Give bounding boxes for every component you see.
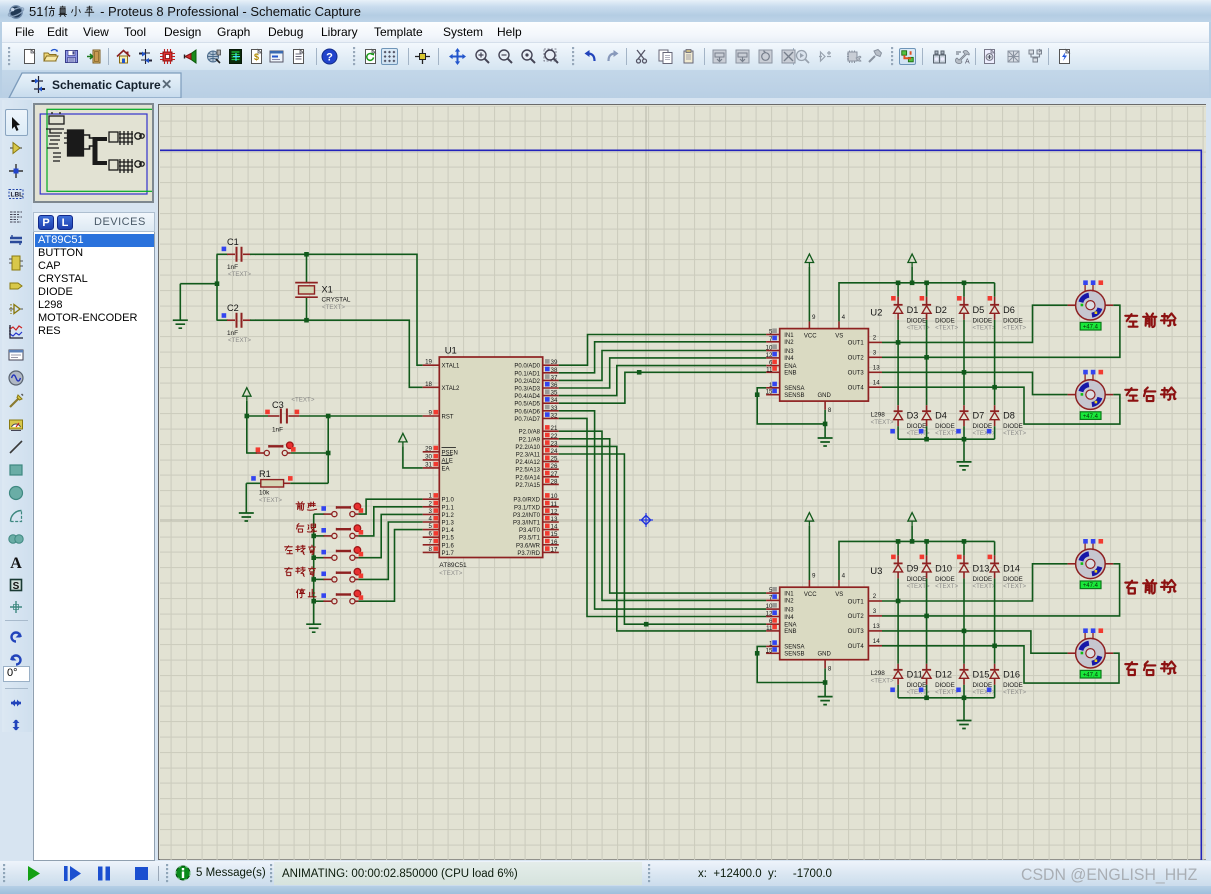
svg-text:LBL: LBL bbox=[11, 192, 24, 199]
svg-text:P3.0/RXD: P3.0/RXD bbox=[513, 498, 540, 504]
wire OUT3-U2 to M2 left bbox=[882, 372, 1068, 394]
svg-text:<TEXT>: <TEXT> bbox=[1003, 689, 1026, 696]
wire OUT1-U3 to M3 left bbox=[882, 564, 1068, 601]
wire SENSA/SENSB tie (U2) bbox=[755, 388, 827, 426]
pin 11 P3.1/TXD (U1) bbox=[514, 501, 559, 512]
svg-text:OUT4: OUT4 bbox=[848, 386, 865, 392]
svg-text:7: 7 bbox=[429, 538, 433, 545]
node button-R1 junction bbox=[326, 451, 331, 456]
svg-text:P0.7/AD7: P0.7/AD7 bbox=[514, 417, 540, 423]
node OUT junction D9 bbox=[896, 599, 901, 604]
button K1 qianjin bbox=[296, 502, 363, 517]
svg-text:P2.0/A8: P2.0/A8 bbox=[519, 430, 541, 436]
node VS rail junction (U2) x925 bbox=[924, 281, 929, 286]
diode D1 (top) and D3 (bottom) column bbox=[890, 283, 930, 439]
pin 25 P2.4/A12 (U1) bbox=[515, 456, 558, 467]
svg-text:P3.1/TXD: P3.1/TXD bbox=[514, 505, 541, 511]
svg-text:DIODE: DIODE bbox=[1003, 576, 1023, 583]
wire net P0.0-IN1 (U1 to U2) bbox=[559, 335, 766, 366]
svg-text:S: S bbox=[13, 581, 20, 592]
svg-text:P2.7/A15: P2.7/A15 bbox=[515, 483, 540, 489]
svg-text:IN1: IN1 bbox=[784, 333, 794, 339]
svg-text:<TEXT>: <TEXT> bbox=[935, 689, 958, 696]
label zuohoulun bbox=[1125, 387, 1175, 401]
svg-text:<TEXT>: <TEXT> bbox=[259, 497, 282, 504]
svg-text:SENSA: SENSA bbox=[784, 645, 804, 651]
svg-text:D13: D13 bbox=[973, 563, 990, 573]
svg-text:16: 16 bbox=[551, 539, 558, 546]
svg-text:14: 14 bbox=[873, 379, 880, 386]
node RST-power junction bbox=[245, 414, 250, 419]
pin 37 P0.2/AD2 (U1) bbox=[514, 374, 558, 385]
svg-text:A: A bbox=[965, 59, 970, 66]
pin 6 P1.5 (U1) bbox=[423, 531, 455, 542]
pin 36 P0.3/AD3 (U1) bbox=[514, 382, 558, 393]
crystal X1 bbox=[295, 254, 351, 320]
svg-text:15: 15 bbox=[766, 389, 773, 396]
pin 9 RST (U1) bbox=[423, 410, 454, 421]
svg-text:<TEXT>: <TEXT> bbox=[439, 570, 462, 577]
wire ground branch to C1/C2 bbox=[180, 284, 217, 321]
svg-text:IN4: IN4 bbox=[784, 615, 794, 621]
svg-text:D15: D15 bbox=[973, 669, 990, 679]
svg-text:+47.4: +47.4 bbox=[1083, 673, 1099, 679]
svg-text:P0.1/AD1: P0.1/AD1 bbox=[514, 371, 540, 377]
pin 14 P3.4/T0 (U1) bbox=[519, 524, 559, 535]
capacitor C2 bbox=[217, 303, 256, 344]
wire button 3 to P1.2 bbox=[358, 514, 422, 557]
pin 7 IN2 (U3) bbox=[766, 594, 794, 604]
svg-text:3: 3 bbox=[429, 508, 433, 515]
svg-text:14: 14 bbox=[551, 524, 558, 531]
svg-text:OUT1: OUT1 bbox=[848, 599, 865, 605]
svg-text:4: 4 bbox=[842, 573, 846, 580]
node OUT junction D10 bbox=[924, 614, 929, 619]
svg-text:D9: D9 bbox=[907, 563, 919, 573]
svg-text:10k: 10k bbox=[259, 490, 270, 497]
svg-text:+47.4: +47.4 bbox=[1083, 583, 1099, 589]
svg-text:DIODE: DIODE bbox=[1003, 317, 1023, 324]
svg-text:SENSB: SENSB bbox=[784, 652, 804, 658]
svg-text:39: 39 bbox=[551, 359, 558, 366]
svg-text:DIODE: DIODE bbox=[1003, 423, 1023, 430]
pin 7 IN2 (U2) bbox=[766, 336, 794, 346]
svg-text:SENSB: SENSB bbox=[784, 393, 804, 399]
svg-text:?: ? bbox=[326, 52, 333, 64]
node C1-gnd junction bbox=[215, 281, 220, 286]
pin 32 P0.7/AD7 (U1) bbox=[514, 412, 558, 423]
svg-text:<TEXT>: <TEXT> bbox=[228, 337, 251, 344]
motor M3 youqianlun (MOTOR-ENCODER) bbox=[1068, 539, 1114, 589]
power terminal VCC (RST section) bbox=[243, 388, 251, 416]
pin 12 IN4 (U2) bbox=[766, 352, 795, 362]
pin 23 P2.2/A10 (U1) bbox=[515, 440, 558, 451]
svg-text:+47.4: +47.4 bbox=[1083, 325, 1099, 331]
pin 3 P1.2 (U1) bbox=[423, 508, 455, 519]
svg-text:6: 6 bbox=[429, 531, 433, 538]
pin 12 IN4 (U3) bbox=[766, 610, 795, 620]
svg-text:<TEXT>: <TEXT> bbox=[322, 304, 345, 311]
wire SENSA/SENSB tie (U3) bbox=[755, 646, 827, 684]
svg-text:L298: L298 bbox=[871, 670, 886, 677]
svg-text:EA: EA bbox=[442, 466, 450, 472]
svg-text:14: 14 bbox=[873, 638, 880, 645]
pin 5 IN1 (U3) bbox=[766, 587, 794, 597]
wire net P0.4-ENA (U1 to U2) bbox=[559, 366, 766, 396]
svg-text:IN3: IN3 bbox=[784, 607, 794, 613]
diode D5 (top) and D7 (bottom) column bbox=[956, 283, 996, 439]
wire net P0.5-ENB (U1 to U2) bbox=[559, 372, 766, 403]
wire VS rail (U3) bbox=[839, 541, 995, 580]
node VS rail junction (U3) x925 bbox=[924, 539, 929, 544]
svg-text:P3.7/RD: P3.7/RD bbox=[517, 551, 540, 557]
svg-text:4: 4 bbox=[842, 314, 846, 321]
ground (diode rail U2) bbox=[957, 462, 972, 470]
pin 8 GND (U2) bbox=[818, 393, 832, 414]
svg-text:<TEXT>: <TEXT> bbox=[871, 678, 894, 685]
wire net P2.3-ENAb (U1 to U3) bbox=[559, 454, 766, 624]
svg-text:2: 2 bbox=[873, 593, 877, 600]
svg-text:10: 10 bbox=[766, 345, 773, 352]
svg-text:+47.4: +47.4 bbox=[1083, 414, 1099, 420]
pin 8 P1.7 (U1) bbox=[423, 546, 455, 557]
pin 34 P0.5/AD5 (U1) bbox=[514, 397, 558, 408]
pin 2 OUT1 (U3) bbox=[848, 593, 882, 605]
node X1 bottom bbox=[304, 318, 309, 323]
wire net P0.2-IN3 (U1 to U2) bbox=[559, 351, 766, 381]
svg-text:P2.6/A14: P2.6/A14 bbox=[515, 475, 540, 481]
svg-text:P1.5: P1.5 bbox=[442, 536, 455, 542]
power terminal VCC (U2) bbox=[805, 254, 813, 321]
svg-text:<TEXT>: <TEXT> bbox=[973, 430, 996, 437]
svg-text:D4: D4 bbox=[935, 411, 947, 421]
power terminal VCC (U3) bbox=[805, 513, 813, 580]
capacitor C3 bbox=[265, 397, 315, 434]
svg-text:D10: D10 bbox=[935, 563, 952, 573]
driver U3 L298 body bbox=[780, 566, 894, 685]
svg-text:17: 17 bbox=[551, 546, 558, 553]
svg-text:OUT4: OUT4 bbox=[848, 644, 865, 650]
pin 12 P3.2/INT0 (U1) bbox=[513, 508, 559, 519]
svg-text:DIODE: DIODE bbox=[907, 317, 927, 324]
svg-text:15: 15 bbox=[766, 647, 773, 654]
svg-text:VS: VS bbox=[835, 592, 843, 598]
mcu U1 AT89C51 body bbox=[439, 346, 542, 578]
svg-text:29: 29 bbox=[425, 445, 432, 452]
pin 10 IN3 (U2) bbox=[766, 344, 795, 354]
wire OUT4-U2 to M2 right bbox=[882, 387, 1120, 424]
svg-text:D6: D6 bbox=[1003, 305, 1015, 315]
svg-text:VS: VS bbox=[835, 333, 843, 339]
wire rail to ground (U2) bbox=[963, 439, 965, 462]
svg-text:C3: C3 bbox=[272, 400, 284, 410]
wire GND rail (U3) bbox=[898, 696, 995, 701]
wire button 1 to P1.0 bbox=[358, 499, 422, 514]
pin 8 GND (U3) bbox=[818, 652, 832, 673]
svg-text:24: 24 bbox=[551, 448, 558, 455]
svg-text:L298: L298 bbox=[871, 412, 886, 419]
svg-text:8: 8 bbox=[828, 407, 832, 414]
svg-text:27: 27 bbox=[551, 471, 558, 478]
power terminal VCC (EA) bbox=[399, 433, 423, 468]
pin 27 P2.6/A14 (U1) bbox=[515, 471, 558, 482]
svg-text:<TEXT>: <TEXT> bbox=[1003, 583, 1026, 590]
pin 38 P0.1/AD1 (U1) bbox=[514, 367, 558, 378]
svg-text:3: 3 bbox=[873, 608, 877, 615]
wire RST net bbox=[247, 415, 423, 417]
svg-text:DIODE: DIODE bbox=[935, 423, 955, 430]
svg-text:34: 34 bbox=[551, 397, 558, 404]
svg-text:D7: D7 bbox=[973, 411, 985, 421]
diode D6 (top) and D8 (bottom) column bbox=[987, 283, 1027, 439]
svg-text:D11: D11 bbox=[907, 669, 923, 679]
svg-text:U2: U2 bbox=[870, 308, 882, 319]
svg-text:GND: GND bbox=[818, 393, 832, 399]
svg-text:<TEXT>: <TEXT> bbox=[973, 689, 996, 696]
wire net P0.3-IN4 (U1 to U2) bbox=[559, 358, 766, 388]
node VS rail junction (U2) x963 bbox=[962, 281, 967, 286]
svg-text:28: 28 bbox=[551, 478, 558, 485]
svg-text:VCC: VCC bbox=[804, 592, 817, 598]
sheet origin axes bbox=[160, 106, 1206, 860]
wire net P0.6-IN3b (U1 to U3) bbox=[559, 411, 766, 609]
svg-text:OUT3: OUT3 bbox=[848, 371, 865, 377]
node bus junction 5 bbox=[311, 599, 316, 604]
svg-text:2: 2 bbox=[873, 335, 877, 342]
wire net P2.2-ENBb (U1 to U3) bbox=[559, 446, 766, 631]
svg-text:DIODE: DIODE bbox=[935, 576, 955, 583]
ground (chip U2) bbox=[818, 438, 833, 446]
svg-text:21: 21 bbox=[551, 425, 558, 432]
svg-text:X1: X1 bbox=[322, 285, 333, 295]
svg-text:P3.4/T0: P3.4/T0 bbox=[519, 528, 541, 534]
pin 28 P2.7/A15 (U1) bbox=[515, 478, 558, 489]
button K3 zuozhuanwan bbox=[285, 545, 364, 560]
svg-text:P0.2/AD2: P0.2/AD2 bbox=[514, 379, 540, 385]
svg-text:<TEXT>: <TEXT> bbox=[228, 271, 251, 278]
pin 29 PSEN (U1) bbox=[423, 445, 458, 456]
svg-text:C2: C2 bbox=[227, 303, 239, 313]
pin 4 P1.3 (U1) bbox=[423, 516, 455, 527]
svg-text:D14: D14 bbox=[1003, 563, 1020, 573]
pin 17 P3.7/RD (U1) bbox=[517, 546, 558, 557]
svg-text:37: 37 bbox=[551, 374, 558, 381]
button K5 tingzhi bbox=[296, 589, 363, 604]
svg-text:P3.5/T1: P3.5/T1 bbox=[519, 536, 541, 542]
svg-text:9: 9 bbox=[429, 410, 433, 417]
svg-text:<TEXT>: <TEXT> bbox=[973, 324, 996, 331]
svg-text:<TEXT>: <TEXT> bbox=[1003, 430, 1026, 437]
wire net P0.7-IN4b (U1 to U3) bbox=[559, 418, 766, 616]
svg-text:<TEXT>: <TEXT> bbox=[935, 324, 958, 331]
svg-text:OUT2: OUT2 bbox=[848, 614, 865, 620]
pin 5 IN1 (U2) bbox=[766, 328, 794, 338]
pin 16 P3.6/WR (U1) bbox=[516, 539, 559, 550]
svg-text:19: 19 bbox=[425, 359, 432, 366]
pin 9 VCC (U2) bbox=[804, 314, 817, 339]
ground (crystal section) bbox=[173, 320, 188, 328]
label youhoulun bbox=[1125, 661, 1175, 675]
svg-text:38: 38 bbox=[551, 367, 558, 374]
svg-text:12: 12 bbox=[551, 508, 558, 515]
svg-text:15: 15 bbox=[551, 531, 558, 538]
resistor R1 bbox=[246, 469, 328, 504]
svg-text:P1.6: P1.6 bbox=[442, 543, 455, 549]
pin 35 P0.4/AD4 (U1) bbox=[514, 390, 558, 401]
pin 30 ALE (U1) bbox=[423, 453, 453, 464]
pin 14 OUT4 (U2) bbox=[848, 379, 882, 391]
svg-text:DIODE: DIODE bbox=[1003, 682, 1023, 689]
diode D10 (top) and D12 (bottom) column bbox=[919, 541, 959, 697]
ground (buttons) bbox=[306, 624, 321, 632]
wire net P0.1-IN2 (U1 to U2) bbox=[559, 342, 766, 373]
svg-text:A: A bbox=[10, 555, 22, 571]
svg-text:OUT3: OUT3 bbox=[848, 629, 865, 635]
svg-text:P0.4/AD4: P0.4/AD4 bbox=[514, 394, 540, 400]
node bus junction 4 bbox=[311, 577, 316, 582]
svg-text:IN1: IN1 bbox=[784, 591, 794, 597]
svg-text:18: 18 bbox=[425, 381, 432, 388]
svg-text:P1.1: P1.1 bbox=[442, 505, 455, 511]
svg-text:IN3: IN3 bbox=[784, 349, 794, 355]
wire C1-C2 left vertical bbox=[216, 254, 218, 320]
svg-text:1nF: 1nF bbox=[272, 427, 283, 434]
diode D14 (top) and D16 (bottom) column bbox=[987, 541, 1027, 697]
pin 21 P2.0/A8 (U1) bbox=[519, 425, 559, 436]
node OUT junction D5 bbox=[962, 370, 967, 375]
svg-text:RST: RST bbox=[442, 415, 454, 421]
svg-text:32: 32 bbox=[551, 412, 558, 419]
svg-text:1nF: 1nF bbox=[227, 330, 238, 337]
wire GND pin (U3) bbox=[824, 668, 826, 696]
wire net P2.1-IN1b (U1 to U3) bbox=[559, 439, 766, 593]
svg-text:$: $ bbox=[254, 52, 259, 62]
svg-text:D16: D16 bbox=[1003, 669, 1020, 679]
svg-text:OUT2: OUT2 bbox=[848, 356, 865, 362]
svg-text:25: 25 bbox=[551, 456, 558, 463]
svg-text:VCC: VCC bbox=[804, 333, 817, 339]
svg-text:<TEXT>: <TEXT> bbox=[291, 397, 314, 404]
motor M2 zuohoulun (MOTOR-ENCODER) bbox=[1068, 370, 1114, 420]
svg-text:SENSA: SENSA bbox=[784, 386, 804, 392]
node VS rail junction (U3) x963 bbox=[962, 539, 967, 544]
svg-text:IN2: IN2 bbox=[784, 340, 794, 346]
svg-text:P2.2/A10: P2.2/A10 bbox=[515, 445, 540, 451]
pin 1 P1.0 (U1) bbox=[423, 493, 455, 504]
wire OUT4-U3 to M4 right bbox=[882, 646, 1119, 683]
wire GND pin (U2) bbox=[824, 410, 826, 438]
label youqianlun bbox=[1125, 580, 1175, 594]
wire XTAL2 net (C2 right to U1 XTAL2) bbox=[255, 320, 423, 387]
node OUT junction D6 bbox=[992, 385, 997, 390]
svg-text:P1.0: P1.0 bbox=[442, 498, 455, 504]
svg-text:8: 8 bbox=[429, 546, 433, 553]
svg-text:ENA: ENA bbox=[784, 623, 796, 629]
wire OUT2-U3 to M3 right bbox=[882, 564, 1120, 616]
svg-text:P2.4/A12: P2.4/A12 bbox=[515, 460, 540, 466]
node bus junction 2 bbox=[311, 534, 316, 539]
wire bus to ground bbox=[313, 601, 315, 624]
motor M1 zuoqianlun (MOTOR-ENCODER) bbox=[1068, 280, 1114, 330]
svg-text:4: 4 bbox=[429, 516, 433, 523]
svg-text:CRYSTAL: CRYSTAL bbox=[322, 297, 351, 304]
motor M4 youhoulun (MOTOR-ENCODER) bbox=[1068, 628, 1114, 678]
svg-text:11: 11 bbox=[551, 501, 558, 508]
svg-text:DIODE: DIODE bbox=[973, 576, 993, 583]
node OUT junction D2 bbox=[924, 355, 929, 360]
pin 9 VCC (U3) bbox=[804, 573, 817, 598]
svg-text:ENB: ENB bbox=[784, 629, 796, 635]
svg-text:12: 12 bbox=[766, 611, 773, 618]
pin 3 OUT2 (U2) bbox=[848, 350, 882, 362]
svg-text:26: 26 bbox=[551, 463, 558, 470]
svg-text:13: 13 bbox=[873, 623, 880, 630]
svg-text:P1.7: P1.7 bbox=[442, 551, 455, 557]
svg-text:5: 5 bbox=[429, 523, 433, 530]
wire OUT3-U3 to M4 left bbox=[882, 631, 1068, 653]
diode D2 (top) and D4 (bottom) column bbox=[919, 283, 959, 439]
svg-text:ENB: ENB bbox=[784, 371, 796, 377]
pin 24 P2.3/A11 (U1) bbox=[516, 448, 559, 459]
svg-text:P3.3/INT1: P3.3/INT1 bbox=[513, 521, 541, 527]
node RST-button junction bbox=[326, 414, 331, 419]
svg-text:OUT1: OUT1 bbox=[848, 341, 865, 347]
wire GND rail (U2) bbox=[898, 437, 995, 442]
wire rail to ground (U3) bbox=[963, 698, 965, 721]
svg-text:23: 23 bbox=[551, 440, 558, 447]
pin 2 P1.1 (U1) bbox=[423, 500, 455, 511]
node X1 top bbox=[304, 252, 309, 257]
wire reset-button left bbox=[246, 416, 248, 453]
svg-text:9: 9 bbox=[812, 573, 816, 580]
power terminal VS rail (U3) bbox=[908, 513, 916, 542]
pin 26 P2.5/A13 (U1) bbox=[515, 463, 558, 474]
capacitor C1 bbox=[217, 237, 256, 278]
svg-text:<TEXT>: <TEXT> bbox=[935, 430, 958, 437]
label zuoqianlun bbox=[1125, 313, 1175, 327]
wire VS rail (U2) bbox=[839, 283, 995, 322]
ground (R1) bbox=[239, 513, 254, 521]
button K4 youzhuanwan bbox=[285, 567, 364, 582]
svg-text:P0.6/AD6: P0.6/AD6 bbox=[514, 409, 540, 415]
svg-text:P3.2/INT0: P3.2/INT0 bbox=[513, 513, 541, 519]
wire net P2.0-IN2b (U1 to U3) bbox=[559, 431, 766, 600]
svg-text:IN4: IN4 bbox=[784, 356, 794, 362]
pin 6 ENA (U3) bbox=[766, 618, 796, 628]
svg-text:D8: D8 bbox=[1003, 411, 1015, 421]
svg-text:IN2: IN2 bbox=[784, 599, 794, 605]
node ENA branch (U3) bbox=[644, 622, 649, 627]
svg-text:P1.3: P1.3 bbox=[442, 521, 455, 527]
svg-text:9: 9 bbox=[812, 314, 816, 321]
svg-text:P0.0/AD0: P0.0/AD0 bbox=[514, 364, 540, 370]
wire reset-button right bbox=[291, 416, 328, 483]
svg-text:GND: GND bbox=[818, 652, 832, 658]
ground (chip U3) bbox=[818, 697, 833, 705]
svg-text:30: 30 bbox=[425, 453, 432, 460]
svg-text:DIODE: DIODE bbox=[973, 317, 993, 324]
pin 15 SENSB (U2) bbox=[766, 389, 805, 399]
pin 6 ENA (U2) bbox=[766, 360, 796, 370]
sheet border (blue) bbox=[160, 150, 1201, 860]
svg-text:ENA: ENA bbox=[784, 364, 796, 370]
svg-text:D1: D1 bbox=[907, 305, 919, 315]
svg-text:31: 31 bbox=[425, 461, 432, 468]
svg-text:AT89C51: AT89C51 bbox=[439, 562, 467, 569]
svg-text:P2.1/A9: P2.1/A9 bbox=[519, 437, 541, 443]
ground (diode rail U3) bbox=[957, 721, 972, 729]
wire button 5 to P1.4 bbox=[358, 530, 422, 602]
